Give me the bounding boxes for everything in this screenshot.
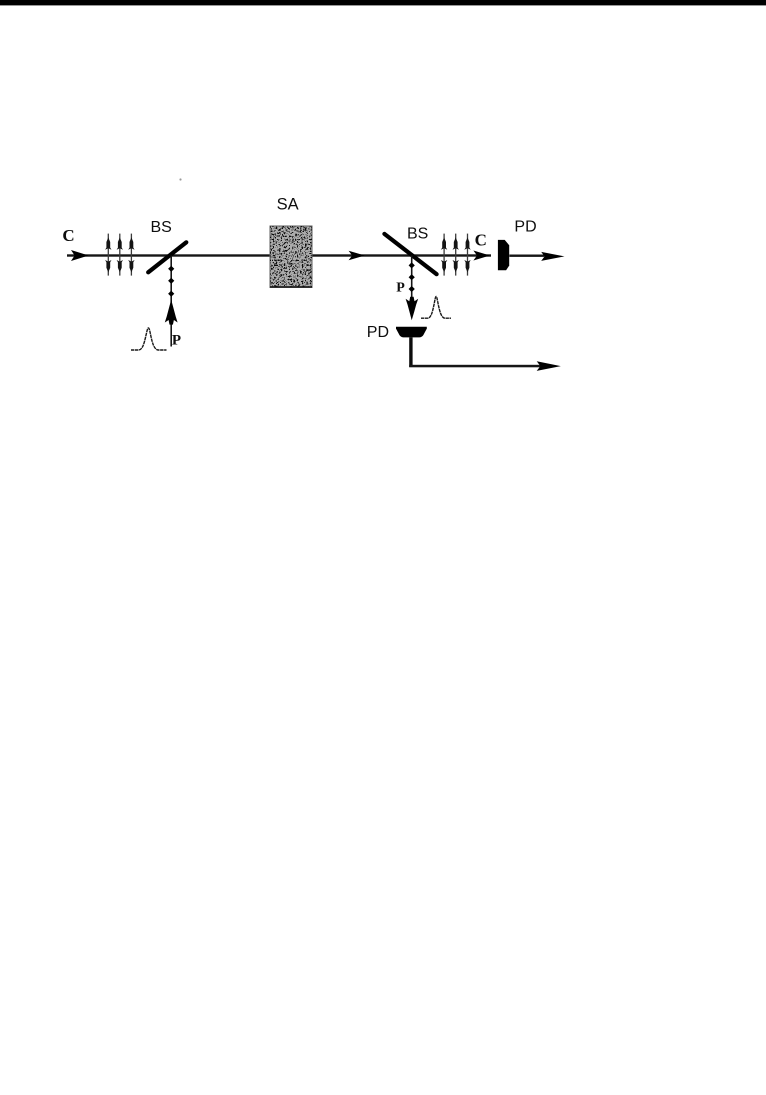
polarization arrows group left	[105, 234, 134, 276]
svg-text:P: P	[172, 332, 181, 348]
saturable absorber SA box (speckle)	[270, 226, 312, 288]
dots on pump line BS2	[409, 262, 415, 292]
photodetector PD lower (cup)	[396, 327, 427, 338]
wire: stem below PD lower	[409, 337, 412, 367]
svg-text:BS: BS	[151, 219, 172, 236]
svg-text:P: P	[396, 281, 405, 296]
photodetector PD top (D shape)	[498, 240, 509, 270]
arrowhead before PD top	[473, 251, 490, 261]
pulse curve 1	[131, 328, 167, 350]
speck artifact above BS1	[179, 178, 181, 180]
beam splitter BS2 diagonal	[384, 234, 436, 274]
svg-text:PD: PD	[514, 219, 536, 236]
svg-text:BS: BS	[407, 226, 428, 243]
arrowhead pump down at BS2	[406, 297, 419, 321]
wire: main beam line middle segment (SA to PD)	[312, 254, 491, 256]
arrowhead mid beam	[349, 251, 365, 260]
polarization arrows group right	[441, 234, 471, 276]
svg-text:PD: PD	[367, 324, 389, 341]
scanner top border bar	[0, 0, 766, 5]
svg-text:C: C	[62, 226, 74, 245]
arrowhead output bottom	[537, 361, 561, 371]
wire: output line bottom	[409, 365, 547, 368]
wire: main beam line left segment	[67, 254, 270, 256]
beam splitter BS1 diagonal	[148, 242, 186, 272]
dots on pump line BS1	[168, 266, 174, 297]
wire: main beam line right segment (after PD)	[509, 255, 544, 257]
wire: pump vertical line at BS2	[411, 256, 413, 301]
arrowhead input left	[71, 250, 89, 261]
arrowhead final right	[541, 252, 564, 261]
pulse curve 2	[421, 296, 451, 318]
svg-text:C: C	[475, 230, 487, 249]
wire: pump vertical line at BS1	[170, 256, 172, 347]
arrowhead pump up at BS1	[165, 300, 178, 325]
svg-text:SA: SA	[277, 196, 299, 214]
